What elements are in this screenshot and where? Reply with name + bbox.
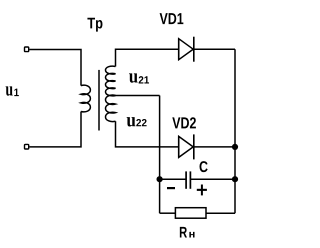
wire: VD1 cathode to right rail — [194, 48, 235, 50]
polarity label plus — [197, 185, 207, 196]
wire: capacitor right lead — [190, 178, 235, 180]
junction: capacitor left / negative branch — [157, 176, 163, 182]
resistor Rн body — [175, 208, 206, 219]
terminal: input bottom — [25, 144, 29, 149]
transformer Tp: secondary winding u22 — [106, 95, 116, 122]
label Rн — [180, 227, 195, 238]
junction: capacitor right / right rail — [232, 176, 238, 182]
wire: bottom input terminal to primary bottom lead — [29, 112, 81, 147]
capacitor C plates — [186, 171, 190, 188]
wire: resistor right lead — [206, 212, 235, 214]
wire: resistor left lead — [160, 212, 176, 214]
label u1 — [6, 86, 19, 96]
label u22 — [127, 117, 147, 126]
transformer Tp: secondary winding u21 — [106, 66, 116, 96]
transformer core — [98, 70, 100, 131]
wire: top input terminal to primary top lead — [29, 50, 81, 86]
label VD2 — [172, 117, 196, 128]
transformer Tp: primary winding — [81, 85, 90, 112]
junction: VD2 cathode / right rail — [232, 144, 238, 150]
label C — [200, 161, 208, 172]
wire: secondary bottom lead to VD2 anode — [116, 121, 179, 147]
wire: VD2 cathode to right rail — [194, 146, 235, 148]
negative branch: center tap down to load — [159, 96, 161, 214]
terminal: input top — [25, 47, 29, 52]
polarity label minus — [167, 187, 175, 189]
wire: center tap — [111, 95, 160, 97]
right rail (+) — [234, 49, 236, 213]
label Tp — [87, 18, 102, 32]
diode VD1 — [179, 37, 194, 62]
diode VD2 — [179, 134, 194, 159]
label u21 — [129, 73, 149, 83]
wire: secondary top lead to VD1 anode — [116, 49, 179, 66]
label VD1 — [160, 13, 184, 24]
wire: capacitor left lead — [160, 178, 186, 180]
